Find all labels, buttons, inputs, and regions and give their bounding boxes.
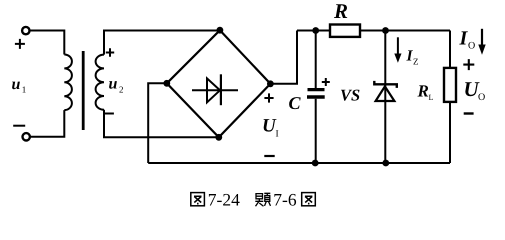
wire primary bottom [30, 110, 65, 137]
node dot VS bottom [382, 160, 389, 167]
label - (u1 bottom) [13, 125, 25, 127]
svg-text:7-24: 7-24 [208, 189, 240, 209]
diode inside bridge : triangle [207, 78, 220, 102]
node dot VS top [382, 27, 389, 34]
right branch wire down [449, 31, 451, 164]
capacitor C top plate [308, 88, 325, 91]
zener diode VS wire [384, 31, 386, 164]
svg-text:VS: VS [340, 85, 360, 104]
svg-text:O: O [468, 41, 475, 52]
svg-text:L: L [429, 93, 434, 102]
transformer primary winding [64, 55, 72, 111]
capacitor C wire upper [315, 31, 317, 89]
node dot C bottom [312, 160, 319, 167]
wire secondary top + top rail to bridge [104, 31, 220, 55]
label + (U_I) [264, 93, 273, 102]
svg-text:u: u [109, 76, 118, 93]
svg-text:7-6: 7-6 [273, 189, 297, 209]
top rail wire (right section) [297, 30, 450, 32]
label U_O [464, 77, 486, 103]
svg-text:u: u [12, 76, 21, 93]
label I_O [459, 28, 476, 52]
node dot C top [312, 27, 319, 34]
capacitor C wire lower [315, 99, 317, 163]
svg-text:R: R [333, 0, 348, 23]
svg-text:1: 1 [22, 85, 27, 95]
zener diode VS triangle [376, 86, 395, 101]
svg-text:I: I [459, 28, 469, 50]
node dot bridge right vertex [267, 80, 274, 87]
caption character 图 (second) [302, 193, 316, 206]
label - (u2 bottom) [105, 113, 114, 115]
input terminal top-left [22, 27, 29, 34]
label u2 [109, 76, 124, 95]
label + (u2 top) [106, 48, 114, 56]
wire bridge left vertex down to bottom rail [148, 83, 167, 163]
wire bridge right vertex up to top rail [270, 31, 297, 84]
bridge rectifier diamond [167, 30, 271, 137]
diode inside bridge : cathode bar [220, 74, 222, 105]
node dot bridge top vertex [217, 27, 224, 34]
svg-text:O: O [478, 92, 485, 103]
svg-text:Z: Z [413, 57, 419, 67]
label R [333, 0, 348, 23]
label + (C) [322, 78, 330, 86]
label R_L [417, 81, 434, 102]
transformer core [82, 51, 85, 130]
wire secondary bottom to bridge bottom vertex [104, 110, 219, 138]
label I_Z [406, 48, 419, 67]
diode inside bridge : axis wire [192, 89, 238, 91]
label C [289, 93, 302, 113]
label + (u1 top) [15, 39, 25, 49]
svg-text:R: R [417, 81, 429, 100]
node dot bridge bottom vertex [215, 134, 222, 141]
arrow I_Z [394, 37, 401, 63]
bottom rail wire [148, 162, 450, 164]
label + (U_O) [463, 59, 474, 70]
input terminal bottom-left [23, 133, 30, 140]
label u1 [12, 76, 27, 95]
arrow I_O [478, 29, 485, 55]
zener diode VS cathode bar with ticks [374, 81, 397, 88]
svg-text:C: C [289, 93, 302, 113]
node dot bridge left vertex [163, 80, 170, 87]
load resistor RL [444, 68, 456, 102]
label U_I [262, 116, 279, 140]
resistor R [330, 25, 360, 37]
caption character 题 [255, 193, 270, 206]
label - (U_I) [264, 155, 274, 157]
capacitor C bottom plate [307, 95, 325, 98]
svg-text:I: I [276, 130, 279, 140]
label - (U_O) [464, 112, 474, 114]
transformer secondary winding [96, 55, 104, 110]
caption character 图 (first) [191, 193, 205, 206]
wire primary top [29, 31, 64, 55]
label VS [340, 85, 360, 104]
svg-text:2: 2 [119, 85, 124, 95]
